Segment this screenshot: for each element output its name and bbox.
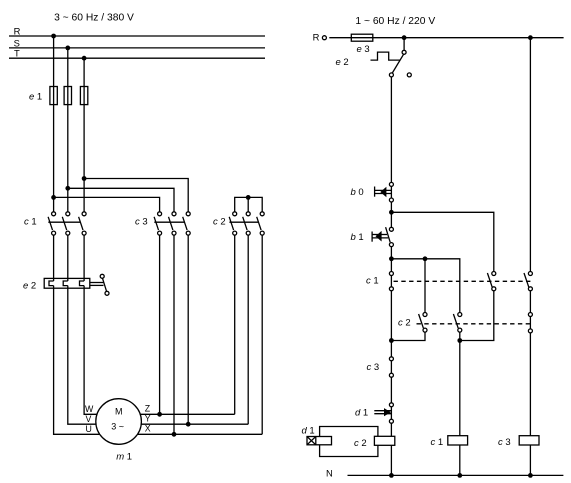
timer coil d1 <box>302 425 332 444</box>
wire c2-2 to node Y <box>247 235 249 424</box>
contact c2 NO aux 1 <box>398 313 427 333</box>
contact d1 timed <box>355 403 393 423</box>
wire d1 to coil c2 <box>390 423 392 436</box>
overload contact e2 control <box>336 38 412 77</box>
overload relay e2 <box>23 274 109 295</box>
svg-text:c 3: c 3 <box>498 437 511 448</box>
svg-text:d 1: d 1 <box>302 425 315 436</box>
wire c2 aux2 bottom to junction E <box>457 332 462 343</box>
node R control terminal <box>313 31 327 42</box>
wire b0 to b1 + junction B <box>389 202 394 227</box>
pushbutton b0 NC <box>351 182 394 202</box>
wire d1 parallel loop <box>320 427 378 457</box>
wire c1 NO aux1 bottom to junction E <box>460 291 494 341</box>
contact c3 NC interlock <box>367 357 394 377</box>
svg-text:R: R <box>313 31 320 42</box>
svg-text:W: W <box>85 404 94 414</box>
wire c1-1 to e2 <box>53 235 55 281</box>
svg-text:3 ~ 60 Hz / 380 V: 3 ~ 60 Hz / 380 V <box>54 13 134 24</box>
junction feed / right rail <box>528 35 533 40</box>
svg-text:b 1: b 1 <box>351 232 364 243</box>
wire branch B to c1 NO aux <box>391 212 493 271</box>
pushbutton b1 NO <box>351 227 394 246</box>
wire branch phase2 to c3 pole2 <box>65 186 174 212</box>
wire c2 aux1 bottom to main <box>391 332 425 340</box>
svg-text:c 2: c 2 <box>213 216 226 227</box>
junction N / c1 <box>457 473 462 478</box>
svg-text:b 0: b 0 <box>351 187 364 198</box>
svg-text:3 ~: 3 ~ <box>111 421 124 431</box>
contactor c2 main contacts <box>213 212 264 235</box>
wire coil c2 to N <box>390 445 392 475</box>
coil c2 <box>354 436 395 449</box>
svg-text:m 1: m 1 <box>116 451 132 462</box>
wire node Y row <box>119 423 249 425</box>
contact c2 NC rail <box>528 313 532 333</box>
junction feed / e2 <box>402 35 407 40</box>
fuse e3 <box>351 34 373 55</box>
svg-text:R: R <box>14 25 21 36</box>
wire coil c1 to N <box>459 445 461 475</box>
node T <box>9 48 265 59</box>
svg-text:d 1: d 1 <box>355 407 368 418</box>
svg-text:c 1: c 1 <box>431 437 444 448</box>
wire to c2 aux 1 <box>424 259 426 313</box>
fuse e1 pole 1 <box>50 87 57 105</box>
contact c2 NO aux 2 <box>453 313 461 333</box>
wire c1-2 to e2 <box>67 235 69 281</box>
junction N / main <box>389 473 394 478</box>
svg-text:Z: Z <box>145 403 151 413</box>
node S <box>9 37 265 48</box>
wire e2 to motor W <box>84 286 119 415</box>
wire R feed bus <box>329 37 563 39</box>
wire phase 3 drop <box>82 56 87 212</box>
wire phase 2 drop <box>65 46 70 212</box>
wire c3-2 to node X <box>172 235 177 437</box>
wire node X row <box>119 433 263 435</box>
node N <box>326 467 563 478</box>
linkage c1 dashed <box>394 280 531 282</box>
junction branch / c2 aux 1 <box>423 256 428 261</box>
wire right rail top <box>529 38 531 272</box>
svg-text:V: V <box>86 414 92 424</box>
wire c3-3 to node Y <box>186 235 191 427</box>
wire c2 star bridge <box>235 195 263 212</box>
coil c3 <box>498 436 539 449</box>
wire coil c3 to N <box>529 445 531 475</box>
wire c3NC to d1 contact <box>390 377 392 402</box>
wire phase 1 drop <box>51 34 56 212</box>
svg-text:e 3: e 3 <box>357 44 370 55</box>
wire e2 to motor U <box>54 286 119 435</box>
contactor c3 main contacts <box>135 212 190 235</box>
svg-text:U: U <box>86 424 92 434</box>
wire c3-1 to node Z <box>157 235 162 417</box>
wire branch phase3 to c3 pole3 <box>82 176 189 212</box>
svg-text:c 3: c 3 <box>135 216 148 227</box>
svg-text:c 3: c 3 <box>367 362 380 373</box>
wire rail c1NO to c2NC <box>529 291 531 313</box>
contact c1 NC interlock <box>366 272 393 291</box>
svg-text:e 2: e 2 <box>23 281 36 292</box>
junction N / c3 <box>528 473 533 478</box>
svg-text:X: X <box>145 424 151 434</box>
motor m1 <box>85 399 151 463</box>
wire e2 to motor V <box>68 286 119 425</box>
wire c1NC to junction D <box>389 291 394 357</box>
wire branch C to c2 aux row <box>391 259 459 313</box>
wire rail to coil c3 <box>529 333 531 436</box>
fuse e1 pole 3 <box>80 87 87 105</box>
coil c1 <box>431 436 468 449</box>
svg-text:c 2: c 2 <box>354 438 367 449</box>
wire node Z row <box>119 413 235 415</box>
svg-text:c 1: c 1 <box>24 216 37 227</box>
svg-text:e 1: e 1 <box>29 92 42 103</box>
fuse e1 pole 2 <box>64 87 71 105</box>
wire e2 to b0 <box>390 77 392 182</box>
contact c1 NO aux 1 <box>487 272 495 291</box>
node R <box>9 25 265 36</box>
svg-text:c 1: c 1 <box>366 275 379 286</box>
wire c2-1 to node Z <box>234 235 236 414</box>
linkage c2 dashed <box>417 323 531 325</box>
svg-text:N: N <box>326 467 333 478</box>
svg-text:T: T <box>14 48 20 59</box>
svg-text:e 2: e 2 <box>336 57 349 68</box>
wire c1-3 to e2 <box>83 235 85 281</box>
contactor c1 main contacts <box>24 212 86 235</box>
contact c1 NO aux 2 rail <box>524 272 532 291</box>
wire junction E to coil c1 <box>459 341 461 436</box>
svg-text:M: M <box>115 407 123 417</box>
wire c2-3 to node X <box>261 235 263 434</box>
svg-text:1 ~ 60 Hz / 220 V: 1 ~ 60 Hz / 220 V <box>355 16 435 27</box>
svg-text:c 2: c 2 <box>398 318 411 329</box>
wire branch phase1 to c3 pole1 <box>51 195 159 212</box>
wire b1 to c1 NC + junction C <box>389 247 394 272</box>
svg-text:Y: Y <box>145 414 151 424</box>
